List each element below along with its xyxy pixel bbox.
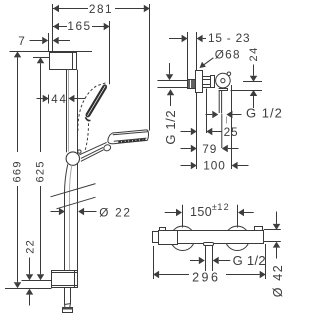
mixer escutcheon circles — [170, 226, 194, 250]
top bracket — [50, 52, 77, 69]
bottom bracket — [52, 270, 78, 287]
bar-top extension line y=57.3 — [33, 57, 49, 59]
svg-text:25: 25 — [224, 125, 239, 139]
extension lines right drawing — [196, 93, 198, 169]
svg-text:100: 100 — [203, 158, 225, 172]
Ø68 label — [200, 48, 241, 68]
dim 24 (rotated) — [231, 46, 263, 108]
svg-text:Ø68: Ø68 — [215, 48, 241, 62]
svg-text:669: 669 — [11, 160, 23, 182]
svg-text:7: 7 — [18, 34, 25, 48]
wall escutcheon (side) — [196, 71, 203, 93]
svg-text:625: 625 — [35, 160, 47, 182]
dim 281 — [53, 2, 150, 16]
G1/2 label (pipe, rotated) — [163, 63, 178, 145]
dim 79 — [181, 142, 239, 156]
mixer outlet — [204, 243, 214, 272]
hose outlet below ball — [219, 89, 228, 114]
dim 150±12 — [165, 202, 254, 227]
hose below bracket — [63, 288, 73, 313]
grip attachment nub — [78, 150, 81, 153]
svg-text:44: 44 — [51, 94, 67, 106]
svg-text:165: 165 — [67, 19, 91, 33]
dim 296 — [153, 244, 266, 285]
dim 7 — [18, 34, 70, 48]
dim Ø22 — [51, 205, 132, 219]
dim 25 — [181, 125, 239, 139]
bottom extension line B (bracket bottom) y=288.4 — [5, 288, 52, 290]
svg-text:79: 79 — [202, 142, 217, 156]
dashed shower outline right — [85, 121, 88, 150]
svg-text:12: 12 — [217, 202, 229, 212]
bottom extension line A (bar end) y=280.2 — [22, 280, 52, 282]
mixer body — [153, 227, 264, 245]
hand shower handle + head — [79, 130, 148, 161]
svg-text:296: 296 — [192, 271, 220, 285]
extension line right of bar top (x=52.7) — [52, 4, 54, 51]
union nut — [203, 76, 215, 88]
wall bar — [67, 70, 78, 270]
extension line head top (x=109.7) — [109, 21, 111, 84]
dim 100 — [181, 158, 249, 172]
hose from slider — [64, 164, 71, 287]
dashed shower outline left — [78, 83, 106, 131]
svg-text:15 - 23: 15 - 23 — [208, 31, 250, 45]
svg-text:Ø 22: Ø 22 — [99, 205, 131, 219]
dim G1/2 (mixer outlet) — [190, 253, 266, 268]
holder ball — [216, 72, 231, 88]
svg-text:22: 22 — [24, 239, 36, 254]
dim G1/2 (outlet) — [206, 106, 283, 124]
upright shower handle (solid dark) — [86, 85, 107, 120]
dim 22 (bottom) — [24, 239, 36, 306]
dim Ø42 (rotated) — [264, 212, 285, 298]
svg-text:281: 281 — [89, 2, 113, 16]
top extension line y=51.4 — [10, 51, 93, 53]
break marks — [51, 184, 96, 197]
svg-text:G 1/2: G 1/2 — [163, 110, 178, 145]
dim 165 — [53, 19, 110, 33]
inlet pipe — [157, 79, 195, 88]
svg-text:Ø 42: Ø 42 — [271, 264, 285, 298]
svg-text:150: 150 — [190, 205, 212, 219]
dim 625 — [35, 57, 47, 280]
svg-text:±: ± — [212, 202, 217, 212]
extension line head right (x=149.8) — [149, 4, 151, 131]
dim 15-23 — [169, 31, 250, 80]
slider circle — [66, 152, 79, 165]
dim 669 — [11, 51, 23, 288]
svg-text:G 1/2: G 1/2 — [233, 253, 266, 268]
svg-text:24: 24 — [248, 46, 260, 61]
extension line wall (x=48.2) — [48, 33, 50, 51]
svg-text:G 1/2: G 1/2 — [246, 106, 283, 121]
dim 44 — [37, 94, 86, 106]
